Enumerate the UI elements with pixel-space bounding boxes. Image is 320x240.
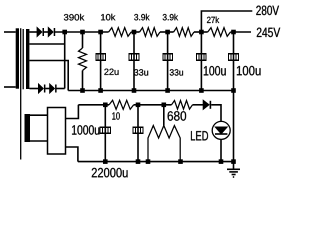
diode D5 [204, 101, 209, 109]
wire 245V lead [231, 31, 252, 33]
wire heater tap [163, 105, 165, 126]
label 22u [104, 69, 118, 75]
capacitor C7 22000u [137, 105, 139, 162]
resistor R1 390k vertical [82, 32, 84, 48]
wire LED cathode [220, 140, 222, 162]
capacitor C4 100u [200, 32, 202, 91]
wire primary bottom lead [4, 86, 16, 88]
wire bridge plus out [66, 105, 79, 119]
transformer T1 primary winding bar [16, 28, 19, 88]
label 390k [64, 14, 84, 21]
wire diode join vertical [64, 32, 66, 89]
wire [56, 88, 64, 90]
resistor R7 680 [172, 101, 193, 110]
wire 0V rail [68, 90, 233, 92]
diode D1 [37, 28, 41, 36]
diode D3 [39, 85, 43, 93]
wire [131, 31, 139, 33]
capacitor C3 33u [167, 32, 169, 91]
wire [134, 104, 172, 106]
resistor R3 3.9k [140, 28, 160, 37]
wire heater minus rail [78, 161, 234, 163]
label 100u [237, 66, 261, 76]
wire bridge minus out [66, 147, 78, 162]
diode D2 [49, 28, 53, 36]
resistor R4 3.9k [174, 28, 194, 37]
wire heater lead bottom [30, 140, 48, 142]
wire primary top lead [4, 31, 16, 33]
wire heater plus rail [78, 104, 109, 106]
label 3.9k [163, 14, 178, 21]
wire heater lead top [30, 114, 48, 116]
transformer T1 core line left [20, 28, 22, 159]
label 3.9k [134, 14, 149, 21]
label 33u [170, 69, 183, 75]
label LED [191, 131, 208, 140]
capacitor C5 100u and ground drop [233, 32, 235, 162]
wire secondary top lead [29, 31, 37, 33]
wire [45, 88, 50, 90]
resistor R5 27k [208, 28, 231, 37]
wire [194, 31, 208, 33]
capacitor C6 1000u [104, 105, 106, 162]
capacitor C1 22u [100, 32, 102, 91]
label 27k [207, 17, 219, 24]
label 22000u [92, 168, 128, 178]
wire [160, 31, 174, 33]
wire [193, 104, 204, 106]
resistor R6 1 ohm [109, 100, 134, 109]
label 100u [204, 66, 226, 76]
resistor R2 10k [109, 28, 132, 37]
wire [44, 31, 49, 33]
label 10k [101, 14, 115, 21]
wire secondary tap2 to 0V [29, 61, 68, 91]
label 10 [112, 112, 120, 119]
label 245V [257, 28, 280, 37]
wire LED feed [211, 105, 221, 122]
label 680 [168, 111, 187, 121]
wire 280V tap [201, 11, 252, 32]
bridge rectifier BR1 box [48, 108, 66, 155]
wire secondary tap1 [29, 43, 64, 45]
LED DS1 [212, 121, 230, 139]
wire secondary bottom lead [29, 88, 38, 90]
diode D4 [50, 85, 54, 93]
heater load zigzag [148, 126, 180, 162]
transformer T1 heater winding bar [25, 114, 31, 142]
capacitor C2 33u [133, 32, 135, 91]
transformer T1 HV secondary winding bar [26, 29, 29, 89]
ground [233, 162, 235, 169]
wire B+ rail [55, 31, 109, 33]
label 33u [134, 69, 148, 75]
label 280V [256, 6, 279, 16]
label 1000u [72, 125, 99, 135]
transformer T1 core line right [22, 29, 24, 89]
